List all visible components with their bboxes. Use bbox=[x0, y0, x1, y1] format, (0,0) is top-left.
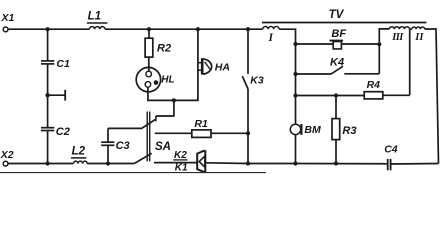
wire R4 row bbox=[296, 95, 365, 97]
microphone BM bbox=[290, 124, 300, 134]
wire C1 branch upper bbox=[47, 29, 49, 60]
svg-text:R2: R2 bbox=[157, 42, 171, 54]
wire C1 to tap bbox=[47, 65, 49, 128]
node SA step on HL-HA wire bbox=[172, 98, 176, 102]
lamp HL bbox=[136, 67, 160, 91]
svg-text:K4: K4 bbox=[330, 56, 344, 68]
wire C2 to bottom rail bbox=[47, 131, 49, 163]
resistor R2 bbox=[148, 29, 150, 38]
svg-text:R4: R4 bbox=[367, 79, 381, 91]
wire rail BM to C4 bbox=[296, 163, 388, 165]
wire C4 to right corner bbox=[391, 163, 439, 166]
inductor L1 bbox=[89, 27, 105, 30]
tap stub bbox=[48, 94, 65, 96]
node top of C1 branch bbox=[46, 27, 50, 31]
node C3 bottom bbox=[106, 161, 110, 165]
transformer winding II bbox=[412, 27, 425, 29]
wire SA to HL-HA node (step) bbox=[156, 100, 174, 116]
svg-text:R1: R1 bbox=[194, 118, 208, 130]
inductor L2 bbox=[73, 161, 87, 164]
transformer winding I bbox=[263, 27, 280, 30]
svg-text:L1: L1 bbox=[88, 11, 101, 23]
capacitor C3 bbox=[107, 146, 109, 164]
wire winding I to vertical bbox=[279, 29, 295, 124]
capacitor C2 bbox=[41, 127, 54, 129]
capacitor C1 bbox=[41, 60, 54, 62]
svg-text:K1: K1 bbox=[175, 162, 188, 173]
svg-text:C1: C1 bbox=[56, 58, 70, 70]
wire capsule to K3 bottom bbox=[206, 162, 248, 165]
switch SA linkage bbox=[146, 112, 148, 162]
phone capsule K2/K1 bbox=[197, 150, 204, 172]
node BF right bbox=[377, 42, 381, 46]
contact K4 bbox=[296, 73, 331, 75]
capacitor C4 bbox=[387, 159, 389, 170]
resistor R3 bbox=[335, 96, 337, 119]
node BM bottom bbox=[293, 161, 297, 165]
node HA top on rail bbox=[196, 27, 200, 31]
svg-text:HA: HA bbox=[215, 62, 230, 74]
wire L1 to transformer bbox=[105, 28, 263, 30]
transformer TV core bbox=[262, 22, 427, 24]
node R3 bottom bbox=[334, 161, 338, 165]
node K3 top on rail bbox=[246, 27, 250, 31]
wire R2 to HL bbox=[148, 57, 150, 71]
wire C3 to SA pivot bbox=[108, 127, 141, 129]
earphone BF bbox=[296, 43, 334, 45]
svg-text:SA: SA bbox=[155, 141, 171, 153]
node tap between C1 and C2 bbox=[45, 93, 49, 97]
wire rail K3 to BM bbox=[248, 163, 296, 165]
wire III-II junction to R4 bbox=[409, 29, 411, 95]
terminal X1 bbox=[3, 27, 8, 32]
resistor R4 bbox=[364, 92, 383, 99]
svg-text:BF: BF bbox=[331, 28, 346, 40]
resistor R1 bbox=[155, 132, 192, 134]
svg-text:X1: X1 bbox=[1, 12, 15, 24]
node R4 wire left bbox=[293, 93, 297, 97]
svg-text:BM: BM bbox=[304, 124, 321, 136]
page artifact line bbox=[0, 172, 266, 174]
node R3 top bbox=[334, 93, 338, 97]
switch SA blade lower bbox=[134, 153, 151, 163]
wire SA to phone capsule bbox=[154, 162, 197, 164]
switch SA upper fixed contact tick bbox=[155, 116, 157, 121]
node K3 bottom on rail bbox=[246, 161, 250, 165]
transformer winding III bbox=[389, 27, 409, 30]
wire winding II right down bbox=[425, 29, 439, 164]
node R2 top on rail bbox=[147, 27, 151, 31]
node bottom of C2 branch bbox=[46, 161, 50, 165]
svg-text:C2: C2 bbox=[56, 126, 70, 138]
wire winding III left vertical bbox=[379, 29, 389, 74]
wire HL bottom to HA bottom bbox=[148, 29, 198, 100]
terminal X2 bbox=[3, 161, 8, 166]
node BF left bbox=[293, 42, 297, 46]
svg-text:TV: TV bbox=[329, 9, 345, 21]
svg-text:X2: X2 bbox=[0, 149, 14, 161]
tap end bar bbox=[64, 90, 66, 101]
wire X2 to L2 bbox=[8, 163, 73, 165]
svg-text:L2: L2 bbox=[72, 145, 86, 157]
node K4 left bbox=[293, 72, 297, 76]
wire L2 to SA bbox=[87, 163, 134, 165]
svg-text:I: I bbox=[268, 32, 274, 44]
svg-text:K3: K3 bbox=[250, 75, 264, 87]
svg-text:III: III bbox=[391, 32, 404, 43]
svg-text:II: II bbox=[414, 32, 424, 43]
contact K3 bbox=[247, 29, 249, 74]
svg-text:HL: HL bbox=[161, 75, 174, 86]
svg-text:C4: C4 bbox=[384, 143, 398, 155]
switch SA blade upper bbox=[141, 119, 156, 129]
wire X1 to L1 bbox=[8, 28, 89, 30]
svg-text:C3: C3 bbox=[116, 140, 130, 152]
svg-text:R3: R3 bbox=[342, 125, 356, 137]
node R1 right on K3 wire bbox=[246, 131, 250, 135]
buzzer HA bbox=[198, 62, 202, 64]
